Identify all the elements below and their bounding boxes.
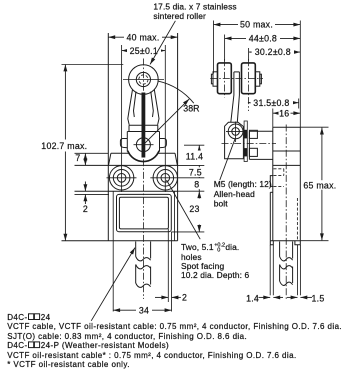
svg-text:2: 2 — [182, 292, 187, 302]
svg-text:8: 8 — [194, 180, 199, 190]
svg-text:sintered roller: sintered roller — [153, 11, 206, 21]
svg-text:30.2±0.8: 30.2±0.8 — [255, 47, 291, 57]
svg-text:SJT(O) cable: 0.83 mm², 4 cond: SJT(O) cable: 0.83 mm², 4 conductor, Fin… — [7, 332, 247, 341]
svg-text:0: 0 — [217, 248, 220, 254]
svg-text:65 max.: 65 max. — [303, 180, 336, 190]
svg-text:2: 2 — [83, 204, 88, 214]
svg-text:23: 23 — [189, 204, 199, 214]
svg-text:dia.: dia. — [225, 242, 239, 252]
svg-text:102.7 max.: 102.7 max. — [41, 141, 87, 151]
svg-text:40 max.: 40 max. — [126, 32, 159, 42]
svg-text:VCTF oil-resistant cable* : 0.: VCTF oil-resistant cable* : 0.75 mm², 4 … — [7, 351, 296, 360]
svg-text:16: 16 — [279, 108, 289, 118]
svg-text:1.5: 1.5 — [312, 293, 325, 303]
svg-text:31.5±0.8: 31.5±0.8 — [253, 98, 289, 108]
svg-text:24-P (Weather-resistant Models: 24-P (Weather-resistant Models) — [41, 341, 169, 350]
svg-text:Two, 5.1: Two, 5.1 — [181, 242, 214, 252]
svg-text:17.5 dia. x 7 stainless: 17.5 dia. x 7 stainless — [153, 1, 236, 11]
svg-text:* VCTF oil-resistant cable onl: * VCTF oil-resistant cable only. — [7, 360, 130, 369]
svg-text:D4C-: D4C- — [7, 341, 27, 350]
svg-text:7: 7 — [75, 153, 80, 163]
svg-text:M5 (length: 12): M5 (length: 12) — [214, 179, 272, 189]
svg-text:10.2 dia. Depth: 6: 10.2 dia. Depth: 6 — [181, 270, 249, 280]
svg-text:38R: 38R — [183, 104, 199, 114]
svg-text:50 max.: 50 max. — [240, 20, 273, 30]
svg-text:44±0.8: 44±0.8 — [249, 34, 277, 44]
svg-text:VCTF cable, VCTF oil-resistant: VCTF cable, VCTF oil-resistant cable: 0.… — [7, 322, 341, 331]
svg-text:25±0.1: 25±0.1 — [130, 46, 158, 56]
svg-text:1.4: 1.4 — [246, 293, 259, 303]
svg-text:11.4: 11.4 — [186, 151, 203, 161]
svg-text:34: 34 — [139, 305, 149, 315]
svg-text:D4C-: D4C- — [7, 313, 27, 322]
svg-text:bolt: bolt — [214, 198, 229, 208]
svg-text:24: 24 — [41, 313, 51, 322]
svg-text:7.5: 7.5 — [189, 168, 202, 178]
